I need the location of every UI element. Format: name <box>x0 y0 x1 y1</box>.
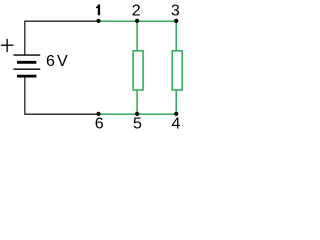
battery long plate (top) <box>14 54 41 56</box>
battery + polarity sign <box>1 39 14 52</box>
svg-text:6: 6 <box>95 115 104 132</box>
battery short thick plate <box>17 61 36 64</box>
battery long plate <box>14 68 41 70</box>
node 6 junction dot <box>96 112 100 116</box>
wire: black top-left loop (battery top to node 1) <box>25 21 99 54</box>
svg-text:4: 4 <box>172 115 181 132</box>
wire: black bottom-left loop (battery bottom to node 6) <box>25 77 99 115</box>
wire: green R2 bottom to node4 <box>175 90 177 114</box>
battery short thick plate (bottom) <box>17 75 36 78</box>
svg-text:V: V <box>57 53 68 70</box>
wire: green top bus node1-node2-node3 <box>99 20 177 22</box>
node 1 junction dot <box>96 19 100 23</box>
node 5 junction dot <box>135 112 139 116</box>
wire: green drop node2 to R1 top <box>136 21 138 51</box>
resistor R2 (right, vertical box) <box>172 51 182 90</box>
svg-text:5: 5 <box>133 115 142 132</box>
svg-text:2: 2 <box>132 3 141 20</box>
label: node 1 <box>96 5 100 16</box>
resistor R1 (left, vertical box) <box>133 51 143 90</box>
svg-text:3: 3 <box>171 3 180 20</box>
node 2 junction dot <box>135 19 139 23</box>
wire: green drop node3 to R2 top <box>175 21 177 51</box>
svg-text:6: 6 <box>46 53 55 70</box>
wire: green R1 bottom to node5 <box>136 90 138 114</box>
node 4 junction dot <box>174 112 178 116</box>
node 3 junction dot <box>174 19 178 23</box>
wire: green bottom bus node6-node5-node4 <box>99 113 177 115</box>
